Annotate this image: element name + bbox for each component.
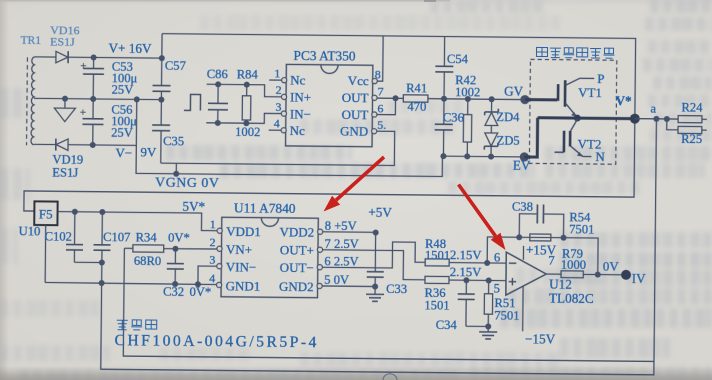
red annotation arrow 2 (to U12) xyxy=(459,185,506,251)
label C35 xyxy=(163,134,184,148)
label R51 7501 xyxy=(494,296,519,323)
isolation amplifier U11 A7840 body xyxy=(216,217,322,298)
label U11 A7840 xyxy=(234,200,296,216)
label ZD5 xyxy=(497,134,520,148)
label R48 1501 xyxy=(425,237,450,263)
label 1002 (R84 value) xyxy=(235,125,260,139)
junction mid/C53-C56 xyxy=(90,96,96,102)
node V* xyxy=(615,93,640,123)
capacitor C57 xyxy=(152,85,170,91)
label 2.15V (lower) xyxy=(450,265,483,279)
node EV xyxy=(513,152,531,173)
junction 5V*/C102 xyxy=(72,209,78,215)
junction VGNG/GND stub xyxy=(173,163,179,177)
wire EV rail xyxy=(442,155,524,158)
pin 2 VN+ xyxy=(209,235,252,257)
capacitor C107 xyxy=(93,212,111,283)
square wave symbol xyxy=(184,94,201,110)
label V+ 16V xyxy=(108,41,152,56)
pin 1 VDD1 xyxy=(210,217,261,239)
wire pin7 OUT xyxy=(377,97,403,99)
resistor R84 xyxy=(242,82,251,127)
capacitor C34 xyxy=(457,280,488,326)
wire pin7 OUT+ to R36 xyxy=(322,250,425,280)
label U12 TL082C xyxy=(549,277,594,306)
label C57 xyxy=(165,59,186,73)
wire V* sense line to F5 xyxy=(24,117,635,217)
wire mid 0V rail (center tap) xyxy=(34,98,161,99)
junction V+ / C57 xyxy=(159,55,165,61)
pin 4 Nc stub xyxy=(269,116,306,138)
label C86 xyxy=(207,67,228,81)
junction 0V*/C107 xyxy=(99,280,105,286)
resistor R34 xyxy=(124,245,219,253)
pin 8 Vcc xyxy=(348,67,381,88)
wire OUT rail to GV xyxy=(428,98,525,101)
pin 8 VDD2 xyxy=(279,218,356,240)
label (Chinese: inverter power module) xyxy=(536,47,614,58)
label C32 0V* xyxy=(163,285,211,299)
junction V+ / C53 xyxy=(91,54,97,60)
label 0V* (near R34) xyxy=(168,231,190,245)
label R34 xyxy=(136,230,158,244)
wire output node (thick) xyxy=(524,118,630,158)
node GV xyxy=(504,84,530,105)
label R25 xyxy=(681,132,702,146)
pin 7 OUT+ xyxy=(280,236,359,258)
junction C38 left xyxy=(516,234,522,240)
wire pin8 to +5V node xyxy=(323,229,379,236)
wire pin6 to pin7 xyxy=(377,95,399,115)
transistor VT2 (IGBT) xyxy=(554,119,591,157)
pin 6 OUT xyxy=(342,101,384,122)
label R54 7501 xyxy=(569,210,594,236)
capacitor C38 xyxy=(519,204,564,237)
wire GND return from C35 to PC3 pin5 xyxy=(161,129,395,165)
label VD19 ES1J xyxy=(52,153,83,180)
label (Chinese: INVT brand) xyxy=(117,320,157,330)
junction EV/R42 xyxy=(464,153,470,159)
wire F5 to 0V* rail xyxy=(44,225,47,282)
ground symbol below R51 xyxy=(479,326,497,339)
junction C38 right xyxy=(560,235,566,241)
ground symbol below C33 xyxy=(366,286,384,301)
wire 5V* from F5 to U11 pin1 xyxy=(57,212,219,231)
label 5V* xyxy=(182,199,205,214)
wire input top rail xyxy=(207,84,283,97)
junction feedback/inverting xyxy=(484,260,490,266)
resistor R79 xyxy=(561,271,583,278)
capacitor C35 xyxy=(152,125,170,131)
transistor VT1 (IGBT) xyxy=(558,78,594,117)
label 68R0 xyxy=(134,254,161,268)
label +15V xyxy=(526,242,557,257)
capacitor C86 xyxy=(208,81,228,126)
resistor R36 xyxy=(425,276,449,283)
label VGNG 0V xyxy=(155,175,220,191)
wire R79 to IV xyxy=(583,273,626,275)
junction R24/R25 branch xyxy=(664,116,670,122)
label R24 xyxy=(681,100,703,114)
wire V- rail (bottom) xyxy=(34,144,137,145)
pin 2 IN+ xyxy=(275,83,311,105)
pin 4 GND1 xyxy=(209,271,260,294)
label P xyxy=(597,71,604,86)
junction mid/ground-arrow xyxy=(62,96,68,102)
zener diode ZD4 xyxy=(484,99,498,133)
label ZD4 xyxy=(496,110,520,124)
wire top frame edge (V+ to Vcc/C54) xyxy=(161,34,635,114)
resistor R48 xyxy=(425,259,449,266)
wire R36 to non-inverting input xyxy=(449,279,506,282)
label pin 7 xyxy=(548,254,554,268)
label V- xyxy=(115,145,132,160)
label C34 xyxy=(436,318,458,332)
label 0V xyxy=(603,259,620,274)
junction R51 xyxy=(486,277,492,283)
wire VGNG 0V rail xyxy=(136,99,443,176)
label R79 1000 xyxy=(561,247,586,272)
pin 5 GND2 xyxy=(279,272,349,294)
junction C34 xyxy=(463,277,469,283)
label VT2 xyxy=(577,136,601,151)
diode VD19 xyxy=(56,139,68,151)
label C53 100u 25V xyxy=(112,60,138,97)
capacitor C36 xyxy=(434,99,453,156)
wire output to R79 xyxy=(546,273,561,275)
label +5V xyxy=(368,205,392,220)
junction V-/C56 xyxy=(90,142,96,148)
pin 6 OUT- xyxy=(280,254,359,276)
op-to-coupler PC3 AT350 body xyxy=(281,64,378,146)
label R36 1501 xyxy=(424,286,449,313)
label -15V xyxy=(525,331,556,346)
resistor R25 xyxy=(678,126,707,133)
fuse/module U10 box F5 xyxy=(34,201,57,225)
pin 3 VIN- xyxy=(209,253,256,275)
junction EV/C36 xyxy=(440,153,446,159)
capacitor C53 (electrolytic) xyxy=(80,57,104,99)
junction feedback/output xyxy=(595,272,601,278)
wire GV to VT1 gate (thick) xyxy=(525,98,557,101)
label PC3 AT350 xyxy=(293,48,356,64)
wire R48 to inverting input xyxy=(449,262,506,265)
label 9V xyxy=(140,144,157,159)
label pin 6 xyxy=(494,251,500,265)
label C107 xyxy=(103,230,130,244)
capacitor C56 (electrolytic) xyxy=(80,99,104,145)
wire to R25 xyxy=(667,119,678,130)
label CHF100A-004G/5R5P-4 xyxy=(114,332,318,351)
resistor R54 (feedback) xyxy=(530,234,551,241)
resistor R41 xyxy=(403,95,428,102)
junction 5V*/C107 xyxy=(99,209,105,215)
zener diode ZD5 xyxy=(484,133,498,157)
diode VD16 xyxy=(56,51,68,63)
label pin 5 xyxy=(494,282,500,296)
resistor R24 xyxy=(678,116,707,123)
label R41 xyxy=(406,81,427,95)
label C56 100u 25V xyxy=(111,103,137,140)
resistor R51 xyxy=(484,280,493,329)
junction 0V*/pin3 xyxy=(195,281,201,287)
label 2.15V (upper) xyxy=(450,248,483,262)
junction OUT/R42 xyxy=(465,96,471,102)
label N xyxy=(595,149,605,164)
label C54 xyxy=(447,52,469,66)
red annotation arrow 1 (to U11) xyxy=(324,157,385,212)
label C102 xyxy=(45,229,72,243)
wire V+ rail (top) xyxy=(34,57,161,58)
capacitor C54 xyxy=(435,36,454,98)
junction 0V*/C32 xyxy=(172,281,178,287)
pin 1 Nc stub xyxy=(269,66,306,87)
wire pin6 OUT- to R48 xyxy=(322,241,425,268)
center-tap ground arrow xyxy=(54,99,75,122)
pin 3 IN- xyxy=(275,100,311,122)
op-amp +15V supply stub xyxy=(522,246,524,260)
capacitor C33 with +5V branch xyxy=(367,233,385,290)
pin 7 OUT xyxy=(342,84,384,105)
resistor R42 xyxy=(463,99,472,156)
capacitor C102 xyxy=(66,212,103,263)
label 470 (R41 value) xyxy=(407,100,426,114)
junction VT1/VT2 emitters-collector xyxy=(574,115,581,122)
junction mid/VGNG branch xyxy=(134,96,140,102)
wire a-node sense loop (outer) xyxy=(101,113,657,375)
scan top edge shading xyxy=(0,0,450,2)
junction OUT/ZD4 xyxy=(489,96,495,102)
node a xyxy=(650,102,659,122)
op-amp U12 TL082C xyxy=(506,252,547,295)
capacitor C32 xyxy=(167,249,184,284)
transformer TR1 secondary winding with core xyxy=(27,57,35,146)
junction mid/C57-C35 xyxy=(158,97,164,103)
inverter power module dashed box xyxy=(529,59,616,164)
label TR1 xyxy=(21,35,42,47)
wire input bottom rail xyxy=(206,113,282,124)
label R42 1002 xyxy=(455,73,480,99)
op-amp -15V supply stub xyxy=(522,287,524,332)
junction OUT/C54-C36 xyxy=(441,96,447,102)
junction EV/ZD5 xyxy=(488,154,494,160)
wire V* to R24 xyxy=(635,118,678,120)
wire 0V* rail xyxy=(45,282,218,284)
wire pin3 VIN- to 0V* xyxy=(198,266,219,285)
wire pin8 Vcc to top rail xyxy=(377,36,383,81)
feedback wire (inverting to output) xyxy=(487,237,598,275)
circled figure number (cut off at bottom edge) xyxy=(383,374,397,380)
node IV xyxy=(621,270,646,286)
label VT1 xyxy=(578,85,602,100)
junction R34/C32 xyxy=(172,246,178,252)
label C36 xyxy=(443,110,464,124)
label C33 xyxy=(386,282,407,296)
wire R34 sense loop (inner) xyxy=(123,248,655,361)
wire top-frame left edge / C57-C35 branch xyxy=(161,34,162,163)
pin 5 GND xyxy=(340,117,386,138)
label C38 xyxy=(512,200,533,214)
wire pin5 GND2 to C33 xyxy=(322,285,375,288)
label VD16 ES1J xyxy=(50,23,80,49)
label U10 xyxy=(19,224,41,238)
label R84 xyxy=(237,67,259,81)
